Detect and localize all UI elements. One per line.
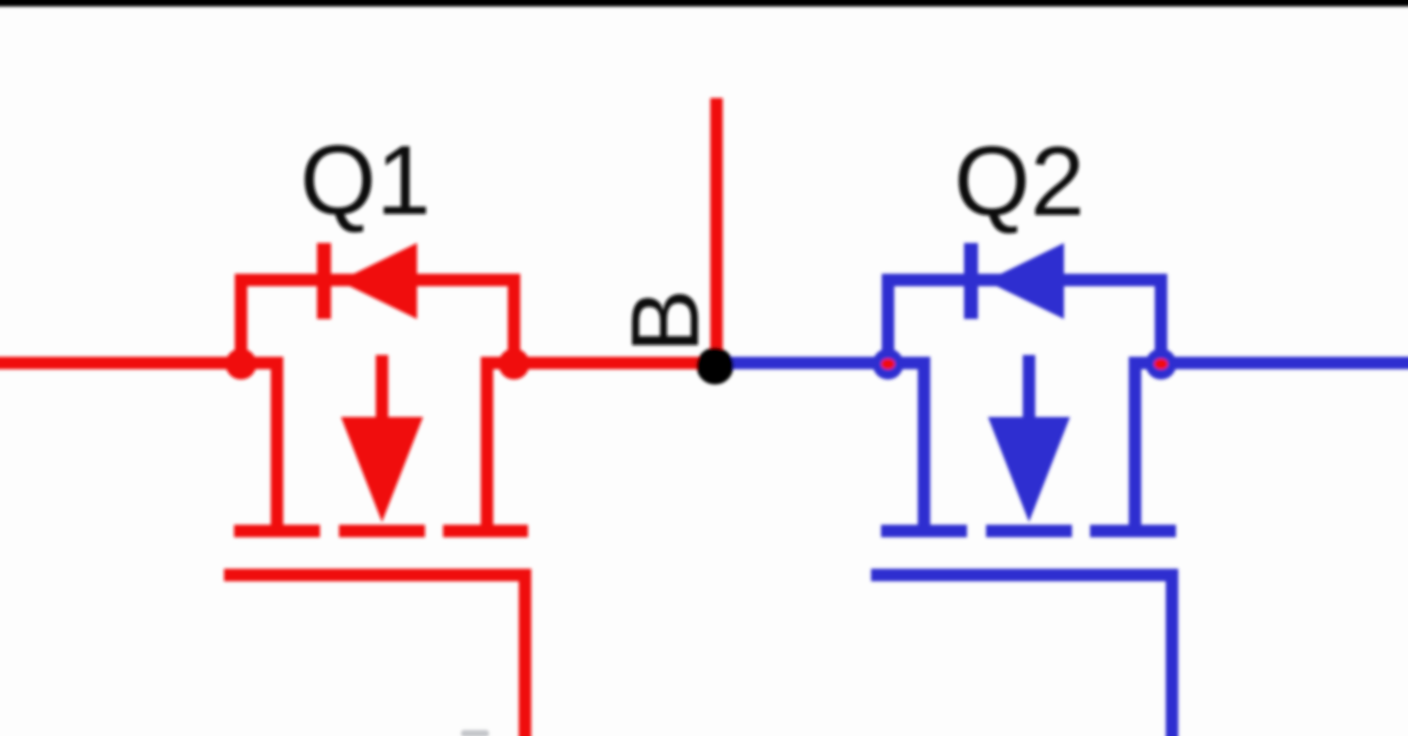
svg-text:Q1: Q1 [300, 125, 431, 235]
svg-text:B: B [612, 289, 719, 353]
svg-text:Q2: Q2 [954, 126, 1085, 236]
